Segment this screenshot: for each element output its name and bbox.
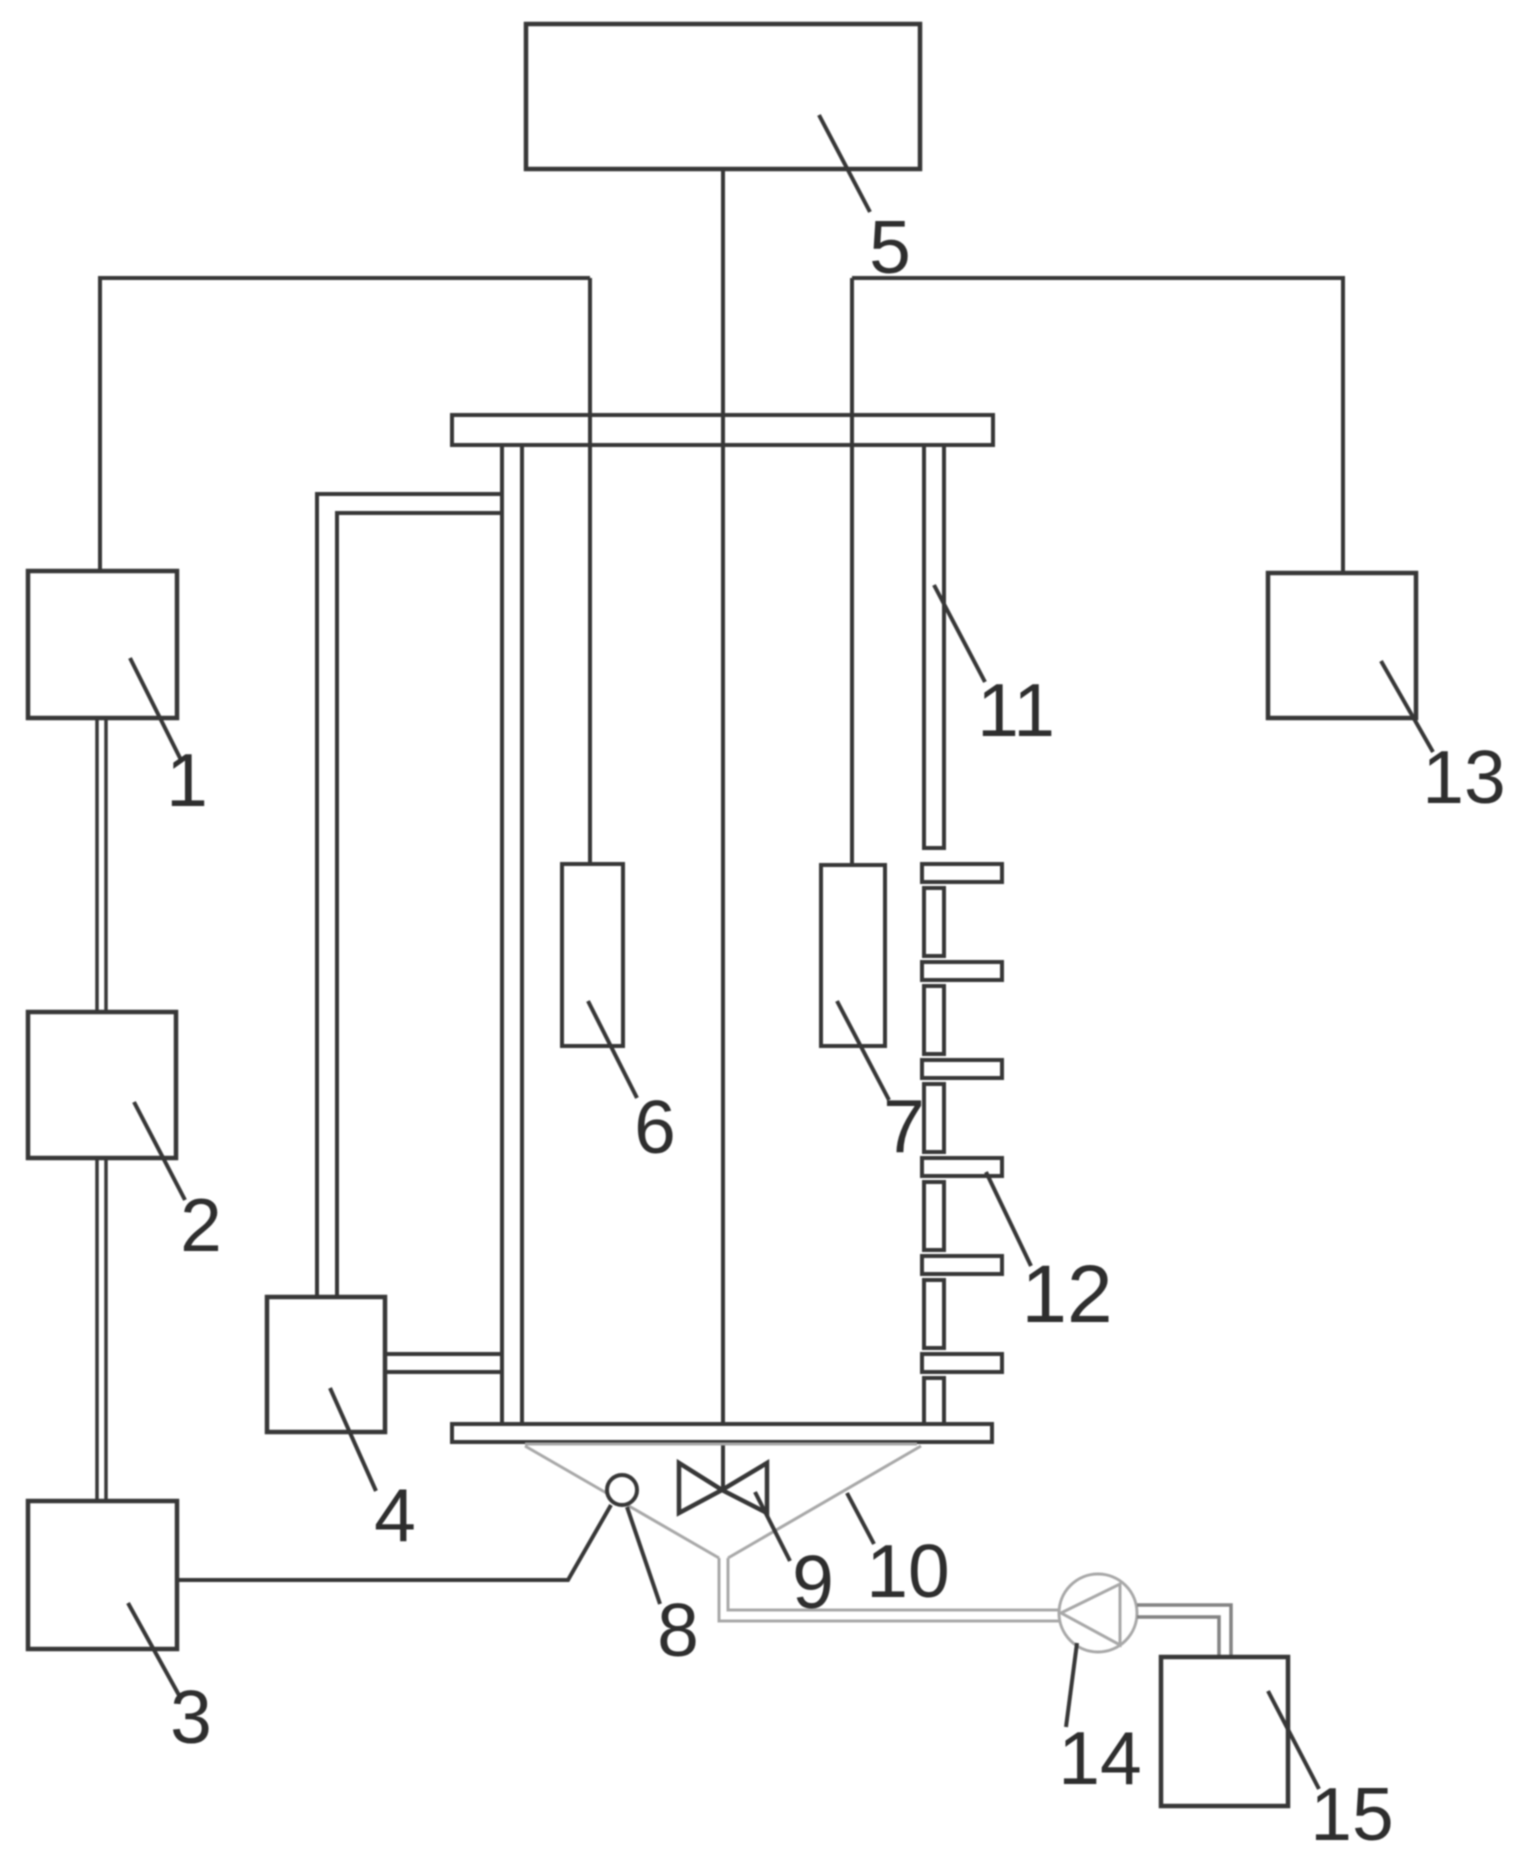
- svg-text:2: 2: [180, 1183, 222, 1267]
- box 2: [28, 1012, 176, 1158]
- leader 15: [1268, 1691, 1319, 1789]
- svg-text:15: 15: [1310, 1772, 1393, 1856]
- leader 2: [134, 1102, 185, 1200]
- motor box 5: [526, 24, 920, 169]
- box 3: [28, 1501, 177, 1649]
- svg-text:7: 7: [883, 1084, 925, 1168]
- probe 7: [821, 865, 885, 1046]
- double pipe box1-box2: [97, 719, 106, 1012]
- leader 14: [1066, 1643, 1077, 1727]
- heater box 4: [267, 1297, 385, 1432]
- fin 6: [922, 1354, 1002, 1372]
- drain valve 8 circle: [607, 1475, 637, 1505]
- leader 8: [627, 1507, 660, 1604]
- leader 6: [588, 1001, 637, 1098]
- drain pipe inner: [728, 1558, 1059, 1610]
- pump 14 rotor triangle: [1061, 1584, 1120, 1645]
- leader 4: [330, 1388, 376, 1491]
- pump 14 circle: [1059, 1574, 1137, 1652]
- probe 6: [562, 864, 623, 1046]
- svg-text:1: 1: [166, 738, 208, 822]
- leader 3: [128, 1603, 180, 1697]
- vessel right wall segment: [924, 445, 944, 848]
- svg-text:3: 3: [170, 1675, 212, 1759]
- leader 12: [986, 1172, 1031, 1266]
- cone right slant: [728, 1446, 921, 1558]
- leader 1: [130, 658, 181, 760]
- jacket inner wall: [337, 513, 501, 1297]
- fin 3: [922, 1060, 1002, 1078]
- bottom flange: [452, 1424, 992, 1442]
- wall segment: [924, 1280, 944, 1348]
- leader 11: [934, 585, 985, 682]
- svg-text:11: 11: [977, 668, 1055, 752]
- svg-text:8: 8: [657, 1588, 699, 1672]
- outlet pipe to box 15: [1137, 1605, 1231, 1657]
- hanger rod for probe 7: [850, 278, 854, 865]
- vessel left wall: [502, 445, 522, 1424]
- double pipe box4 to vessel: [385, 1354, 503, 1372]
- svg-text:10: 10: [866, 1529, 949, 1613]
- wire left (box1 to hanger): [100, 278, 590, 571]
- box 13: [1268, 573, 1416, 718]
- drain pipe outer: [719, 1558, 1059, 1621]
- svg-text:13: 13: [1422, 735, 1505, 819]
- leader 10: [847, 1493, 874, 1544]
- hanger rod for probe 6: [588, 278, 592, 864]
- leader 13: [1381, 661, 1433, 752]
- wire right (hanger to box13): [852, 278, 1343, 573]
- wall segment: [924, 1378, 944, 1424]
- stirrer shaft: [721, 169, 725, 1490]
- fin 4: [922, 1158, 1002, 1176]
- wall segment: [924, 986, 944, 1054]
- cone top edge: [525, 1443, 917, 1446]
- svg-text:9: 9: [792, 1540, 834, 1624]
- svg-text:4: 4: [374, 1473, 416, 1557]
- svg-text:5: 5: [869, 205, 911, 289]
- wall segment: [924, 1084, 944, 1152]
- double pipe box2-box3: [97, 1158, 106, 1501]
- box 1: [28, 571, 177, 718]
- box 15: [1161, 1657, 1288, 1806]
- wall segment: [924, 1182, 944, 1250]
- svg-text:14: 14: [1058, 1716, 1141, 1800]
- leader 5: [819, 115, 870, 212]
- leader 9: [755, 1492, 790, 1561]
- leader 7: [837, 1001, 889, 1100]
- cone left slant: [525, 1446, 719, 1558]
- fin 1: [922, 864, 1002, 882]
- vessel lid: [452, 415, 993, 445]
- fin 5: [922, 1256, 1002, 1274]
- jacket outer wall: [317, 494, 501, 1297]
- valve 9 bowtie: [679, 1463, 767, 1513]
- svg-text:6: 6: [634, 1085, 676, 1169]
- pipe box3 to drain valve 8: [177, 1505, 611, 1580]
- wall segment: [924, 888, 944, 956]
- fin 2: [922, 962, 1002, 980]
- svg-text:12: 12: [1021, 1249, 1112, 1340]
